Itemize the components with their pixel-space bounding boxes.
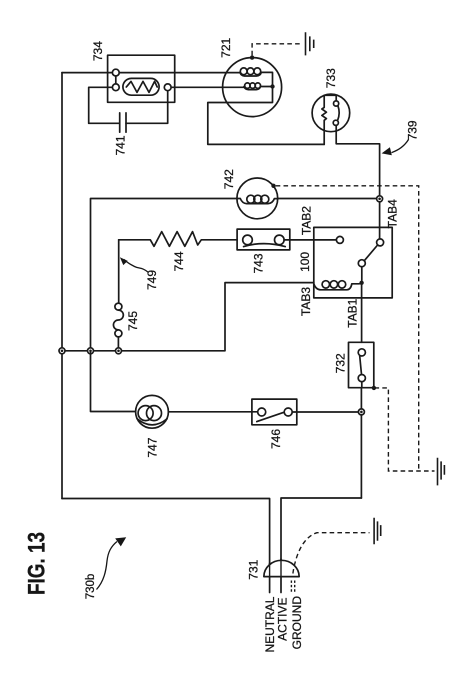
- motor 721 circle: [223, 58, 282, 117]
- svg-text:FIG. 13: FIG. 13: [24, 532, 51, 595]
- svg-text:744: 744: [172, 251, 186, 271]
- terminal junction below 732: [358, 409, 364, 415]
- contact 732 bottom: [358, 375, 365, 382]
- svg-text:GROUND: GROUND: [290, 596, 304, 650]
- resistor zigzag in 734: [126, 81, 157, 92]
- wire 742 left and down to junction row: [91, 199, 238, 348]
- svg-text:745: 745: [126, 311, 140, 331]
- ground symbol lower right: [438, 458, 445, 486]
- junction mid: [88, 348, 94, 354]
- wire 745 to junction: [117, 337, 119, 348]
- switch arm 746: [257, 412, 284, 421]
- node relay coil junction: [359, 281, 363, 285]
- svg-text:TAB1: TAB1: [346, 298, 360, 327]
- wire 744 left lead down to 745: [118, 240, 120, 303]
- switch arm 732: [360, 356, 362, 375]
- wire active pin through plug: [280, 559, 282, 592]
- dashed lines group: [252, 44, 434, 592]
- contact 733 bottom: [333, 120, 338, 125]
- svg-text:730b: 730b: [85, 574, 97, 600]
- svg-text:739: 739: [406, 120, 420, 140]
- relay movable contact: [358, 260, 365, 267]
- resistor element in 734 (stadium): [123, 78, 159, 95]
- coil 745 serpentine: [113, 310, 123, 330]
- svg-text:733: 733: [324, 68, 338, 88]
- coil 721 bottom winding loops: [245, 83, 250, 88]
- dashed wire 721 to top ground: [252, 44, 302, 56]
- resistor 744: [119, 232, 237, 247]
- wire movable contact to coil node: [361, 267, 363, 281]
- svg-text:734: 734: [91, 41, 105, 61]
- coil in 742 baseline: [237, 199, 278, 204]
- switch 732 box: [349, 342, 374, 387]
- switch arm 733: [338, 106, 340, 121]
- node on 742 edge for dashed line: [271, 184, 275, 188]
- terminal 734 right: [164, 84, 171, 91]
- svg-text:731: 731: [247, 559, 261, 579]
- terminal 734 lower-left: [112, 84, 119, 91]
- wire TAB1 down to 732: [361, 285, 363, 342]
- wire to 747 from mid vertical: [91, 351, 136, 412]
- svg-text:742: 742: [222, 169, 236, 189]
- coil 745 bottom terminal: [115, 330, 122, 337]
- wire 734 right circle to 721 bottom coil: [171, 86, 244, 88]
- thermostat 743 box: [237, 229, 290, 250]
- overload protector 734 box: [108, 55, 175, 102]
- capacitor 741 plates: [120, 113, 126, 132]
- svg-text:100: 100: [298, 252, 312, 272]
- svg-text:TAB3: TAB3: [299, 287, 313, 316]
- wire TAB4 down into relay: [379, 202, 381, 239]
- relay 100 box: [314, 227, 392, 298]
- contact 746 left: [258, 408, 266, 416]
- switch 746 box: [252, 399, 297, 425]
- protector 733 circle: [312, 94, 350, 132]
- wire 746 to junction: [292, 411, 358, 413]
- bimetal arm 743: [244, 244, 286, 247]
- wire 734 lower-left stub: [89, 87, 113, 123]
- dashed wire plug ground curve: [293, 533, 370, 574]
- terminal TAB4 circled dot: [377, 196, 383, 202]
- wire from 721 windings down-left: [208, 87, 324, 145]
- node top of 721: [250, 55, 254, 59]
- wire left bus vertical: [61, 73, 63, 499]
- svg-text:TAB4: TAB4: [386, 199, 400, 228]
- svg-text:747: 747: [145, 437, 159, 457]
- dashed wire 742 to right side down: [276, 186, 419, 471]
- contact 743 right: [275, 235, 285, 245]
- wire junction row horizontal: [62, 283, 314, 351]
- coil 721 bottom winding baseline: [244, 87, 270, 90]
- svg-text:743: 743: [252, 253, 266, 273]
- coil 721 top winding baseline: [240, 72, 273, 84]
- resistor in 733: [322, 95, 336, 144]
- svg-text:721: 721: [219, 37, 233, 57]
- arrow 739: [392, 140, 409, 153]
- svg-text:749: 749: [145, 270, 159, 290]
- contact 732 top: [358, 349, 365, 356]
- capacitor C741 loop wires: [89, 91, 168, 124]
- plug pin lines inside dome: [270, 559, 281, 576]
- lamp 747 circle: [136, 395, 169, 428]
- contact 733 top: [334, 101, 339, 106]
- contact TAB2: [336, 236, 343, 243]
- svg-text:ACTIVE: ACTIVE: [276, 598, 290, 641]
- plug 731 dome: [264, 560, 299, 576]
- contact 746 right: [284, 408, 292, 416]
- terminal 734 top-left: [112, 69, 119, 76]
- svg-text:741: 741: [113, 135, 127, 155]
- wire bottom rail left: [62, 499, 270, 564]
- svg-text:746: 746: [269, 429, 283, 449]
- arrow 730b squiggle: [97, 542, 118, 590]
- wire 733 to TAB4 corner (739 wire): [336, 125, 379, 195]
- ground symbol top: [306, 32, 314, 55]
- contact TAB4: [377, 239, 384, 246]
- coil in 742 loops: [247, 195, 255, 203]
- relay switch arm: [364, 245, 377, 261]
- wire 732 bottom lead: [361, 382, 363, 388]
- wire 747 to 746: [168, 411, 257, 413]
- filament loops 747: [138, 406, 153, 421]
- dashed wire 732 to lower ground: [375, 388, 435, 471]
- wire link between 734 left terminals: [115, 76, 117, 84]
- dashed ground pin of plug: [291, 581, 294, 593]
- wire bottom rail right: [281, 498, 361, 559]
- contact 743 left: [243, 235, 253, 245]
- arrow 749: [124, 259, 149, 272]
- lamp 742 circle: [237, 178, 278, 219]
- node 732 dashed takeoff: [372, 386, 376, 390]
- ground symbol plug earth: [374, 518, 381, 545]
- wire 746 junction up to 732: [360, 388, 362, 498]
- wire neutral pin through plug: [269, 564, 271, 593]
- wire 742 to TAB4: [278, 198, 377, 200]
- wire 734 top to bus and to 721 top coil: [62, 72, 240, 74]
- lamp 747 bottom arc: [137, 419, 167, 425]
- junction left bus: [59, 348, 65, 354]
- node 721 windings junction: [270, 84, 274, 88]
- svg-text:732: 732: [334, 353, 348, 373]
- coil 745 top terminal: [115, 303, 122, 310]
- junction 745: [116, 348, 122, 354]
- coil 721 top winding loops: [240, 68, 247, 75]
- relay coil baseline: [314, 284, 360, 290]
- relay coil loops: [322, 281, 329, 288]
- svg-text:TAB2: TAB2: [300, 206, 314, 235]
- wire 743 to TAB2: [284, 239, 336, 241]
